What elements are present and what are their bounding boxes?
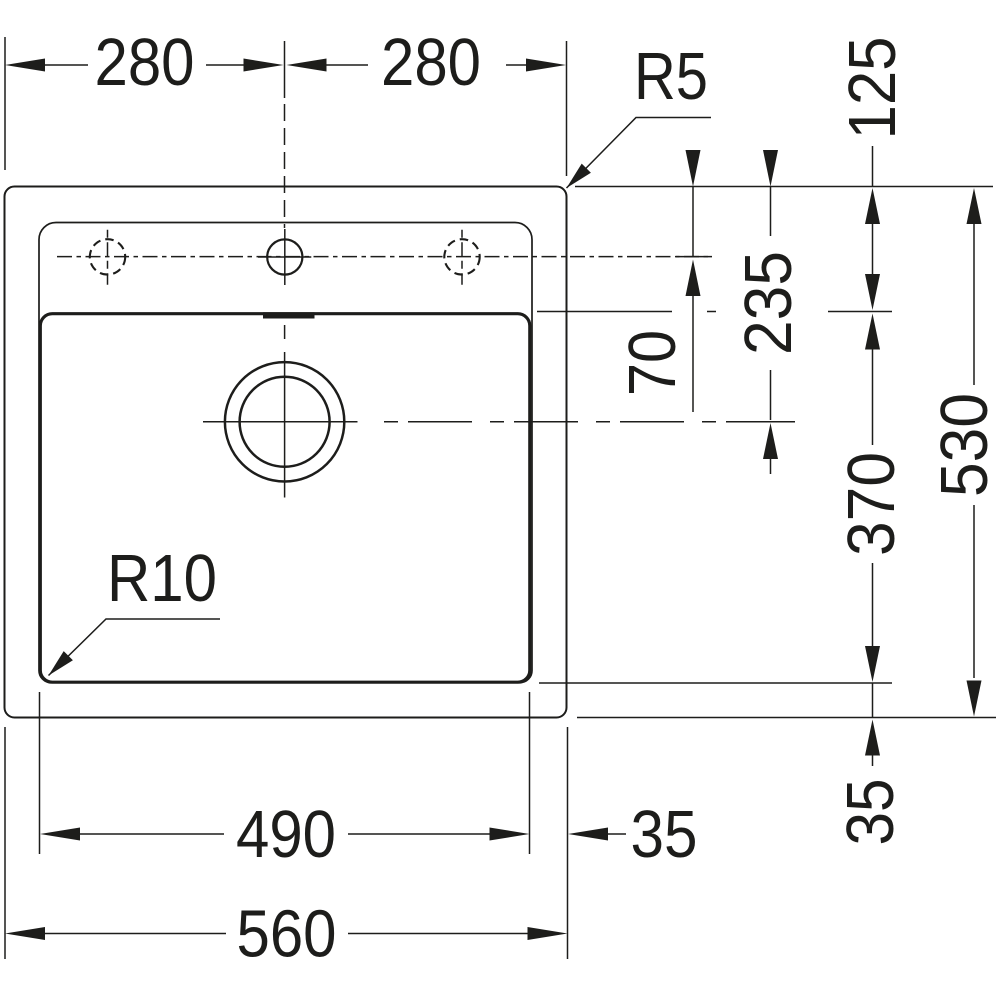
- svg-text:280: 280: [381, 25, 481, 100]
- drain centerline right: [384, 421, 795, 423]
- extension line bowl bottom right: [539, 682, 892, 684]
- svg-text:235: 235: [731, 251, 806, 355]
- svg-text:R10: R10: [107, 541, 217, 616]
- extension line bowl top right: [537, 311, 672, 313]
- dimension line 530: [967, 188, 982, 224]
- faucet hole right (knockout): [444, 239, 479, 274]
- extension line sink right top: [566, 41, 568, 176]
- svg-text:R5: R5: [634, 39, 708, 114]
- svg-text:70: 70: [615, 330, 690, 396]
- svg-text:280: 280: [95, 25, 195, 100]
- dimension line 235: [763, 150, 778, 187]
- bowl outline R10: [40, 314, 530, 683]
- leader R5: [567, 118, 712, 189]
- svg-text:560: 560: [237, 897, 337, 972]
- rim inner outline: [39, 223, 532, 683]
- drain cross vertical: [284, 352, 286, 498]
- svg-text:35: 35: [833, 779, 908, 846]
- dimension 35 bottom: [568, 828, 608, 841]
- dimension 280 left: [5, 59, 45, 72]
- drain flange outer circle: [225, 362, 344, 481]
- overflow slot: [263, 312, 315, 318]
- dimension 560: [5, 927, 45, 940]
- dimension 490: [40, 828, 80, 841]
- outer sink outline R5: [5, 187, 567, 718]
- svg-text:125: 125: [835, 37, 910, 140]
- dimension line 125 / 370 / 35 right: [872, 146, 874, 187]
- top center extension line: [284, 41, 286, 98]
- faucet hole center: [267, 239, 302, 274]
- svg-text:530: 530: [927, 393, 1000, 497]
- extension lines bottom: [39, 692, 41, 854]
- svg-text:490: 490: [236, 797, 336, 872]
- extension line sink bottom right: [577, 717, 996, 719]
- svg-text:35: 35: [631, 797, 698, 872]
- svg-text:370: 370: [834, 452, 909, 556]
- faucet centerline: [57, 256, 712, 258]
- extension line sink top right: [575, 186, 993, 188]
- drain cross horizontal: [203, 421, 358, 423]
- leader R10: [49, 619, 221, 676]
- dimension line 70: [686, 150, 701, 187]
- dimension 280 right: [287, 59, 327, 72]
- extension line sink left top: [4, 37, 6, 170]
- faucet hole left (knockout): [90, 239, 125, 274]
- drain inner circle: [240, 377, 330, 467]
